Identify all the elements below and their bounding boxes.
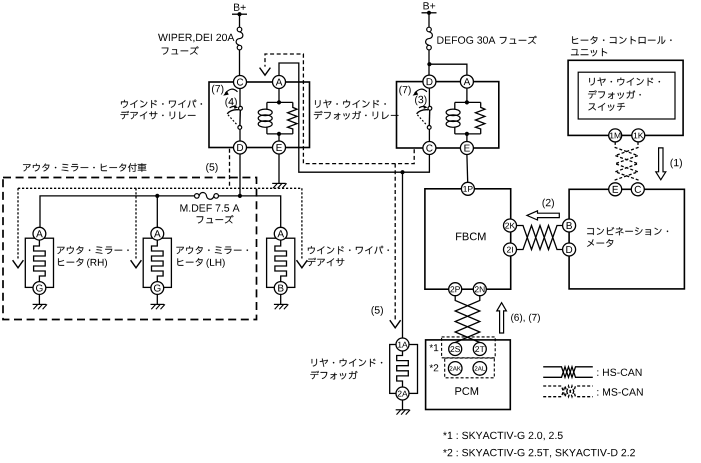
block arrow (1) pointing down bbox=[656, 148, 666, 180]
label MS-CAN bbox=[597, 390, 598, 396]
wire RH heater G to ground bbox=[38, 294, 40, 304]
node M.DEF junction bbox=[238, 194, 242, 198]
fuse M.DEF 7.5A bbox=[195, 193, 219, 200]
label outer mirror heater equipped cars bbox=[23, 163, 146, 172]
wire relay2 E to FBCM 1P bbox=[466, 155, 469, 183]
wire B+ feed to WIPER fuse bbox=[239, 14, 241, 27]
fuse WIPER,DEI 20A bbox=[236, 27, 243, 50]
meter terminal D bbox=[563, 243, 576, 256]
label rear window defogger bbox=[310, 359, 382, 380]
meter terminal E bbox=[609, 183, 622, 196]
relay2 terminal D bbox=[423, 75, 436, 88]
battery terminal B+ (right) bbox=[422, 2, 437, 15]
FBCM terminal 1P bbox=[461, 182, 474, 195]
PCM terminal 2T bbox=[473, 343, 486, 356]
ground rear defogger bbox=[396, 410, 410, 415]
ground under relay1 E bbox=[272, 183, 286, 188]
label (4) relay1 bbox=[225, 98, 238, 109]
label (5) left bbox=[206, 163, 209, 173]
HS-CAN twisted pair FBCM to meter bbox=[517, 226, 563, 250]
battery terminal B+ (left) bbox=[232, 4, 247, 17]
wire defogger 2A to ground bbox=[402, 400, 404, 410]
legend HS-CAN symbol bbox=[543, 367, 593, 378]
relay1 coil and resistor bbox=[258, 89, 297, 142]
label wind wiper deicer bbox=[307, 246, 389, 266]
label rear window defogger relay bbox=[314, 100, 399, 120]
ground LH heater bbox=[151, 304, 165, 309]
HCU terminal 1K bbox=[632, 129, 645, 142]
dashed group skyactiv-g terminals bbox=[442, 337, 496, 358]
dotted drop to wind wiper deicer bbox=[297, 188, 308, 267]
wire LH heater G to ground bbox=[156, 294, 158, 304]
PCM terminal 2AL bbox=[473, 362, 487, 376]
label (1) bbox=[671, 159, 674, 169]
ground wiper deicer bbox=[274, 304, 288, 309]
label M.DEF 7.5 A fuse bbox=[180, 204, 239, 223]
label outer mirror heater LH bbox=[176, 246, 248, 268]
relay1 terminal A bbox=[273, 76, 286, 89]
dashed link relay2 C down to defogger (step 5) bbox=[394, 164, 396, 321]
wire B+ feed to DEFOG fuse bbox=[428, 13, 430, 27]
rear window defogger element bbox=[390, 345, 418, 394]
meter terminal B bbox=[563, 219, 576, 232]
dashed link relay1 D down (step 5) bbox=[229, 149, 231, 189]
FBCM terminal 2K bbox=[504, 219, 517, 232]
node relay2 feed split bbox=[427, 62, 431, 66]
node LH heater junction bbox=[155, 194, 159, 198]
wire LH heater drop bbox=[156, 196, 158, 228]
label outer mirror heater RH bbox=[57, 246, 129, 268]
dotted distribution line to heater loads bbox=[18, 187, 302, 189]
label *1 marker bbox=[430, 344, 434, 348]
label heater control unit bbox=[571, 36, 672, 56]
block arrow (6)(7) pointing up bbox=[497, 303, 507, 333]
wire relay1 A loop to output bus and relay2 C bbox=[279, 63, 429, 172]
relay1 terminal C bbox=[234, 76, 247, 89]
wire branch to relay2 A bbox=[429, 64, 467, 75]
outer mirror heater LH element bbox=[143, 227, 171, 294]
FBCM terminal 2I bbox=[504, 243, 517, 256]
label FBCM bbox=[456, 233, 461, 241]
dashed group skyactiv-d terminals bbox=[445, 358, 495, 378]
outer mirror heater RH element bbox=[25, 227, 53, 294]
arrowhead at defogger 1A bbox=[390, 320, 401, 328]
wind wiper deicer element bbox=[267, 227, 295, 294]
fuse DEFOG 30A bbox=[426, 27, 433, 50]
label (7) relay2 bbox=[399, 86, 427, 96]
label WIPER,DEI 20A fuse bbox=[158, 34, 234, 55]
FBCM terminal 2N bbox=[473, 283, 486, 296]
arrowhead at relay1 A bbox=[260, 68, 271, 76]
wire wiper deicer B to ground bbox=[280, 294, 282, 304]
label *2 marker bbox=[430, 364, 434, 368]
MS-CAN twisted pair HCU to meter bbox=[615, 142, 638, 183]
label wind wiper deicer relay bbox=[121, 100, 203, 120]
wire main heater bus bbox=[40, 196, 195, 228]
wire fuse to junction and wiper deicer bbox=[219, 196, 281, 228]
wire fuse to relay2 bbox=[428, 50, 430, 75]
PCM terminal 2AK bbox=[448, 362, 462, 376]
rear window defogger switch inner box bbox=[578, 72, 675, 119]
wire junction down to defogger 1A bbox=[402, 172, 404, 338]
HCU terminal 1M bbox=[609, 129, 622, 142]
label DEFOG 30A fuse bbox=[437, 36, 536, 44]
legend MS-CAN symbol bbox=[543, 386, 593, 397]
relay2 terminal A bbox=[460, 75, 473, 88]
PCM box bbox=[426, 340, 511, 410]
dashed link relay2 to relay1 A (step 3-4) bbox=[265, 54, 414, 164]
label HS-CAN bbox=[597, 370, 598, 376]
FBCM box bbox=[425, 189, 511, 289]
wire relay1 E to ground bbox=[278, 154, 280, 183]
label (2) bbox=[543, 199, 546, 209]
block arrow (2) pointing left bbox=[527, 211, 559, 220]
relay1 terminal E bbox=[273, 141, 286, 154]
combination meter box bbox=[569, 189, 684, 289]
defogger terminal 2A bbox=[396, 387, 409, 400]
node junction defogger feed bbox=[400, 170, 404, 174]
defogger terminal 1A bbox=[396, 338, 409, 351]
relay1 terminal D bbox=[234, 141, 247, 154]
dashed box cars with outer mirror heater bbox=[3, 178, 257, 320]
dotted drop to RH mirror heater bbox=[13, 188, 24, 267]
label (7) relay1 bbox=[212, 85, 238, 96]
meter terminal C bbox=[631, 183, 644, 196]
footnote *2 SKYACTIV-G 2.5T SKYACTIV-D 2.2 bbox=[443, 449, 447, 453]
relay1 switch contact bbox=[227, 89, 242, 142]
dotted drop to LH mirror heater bbox=[131, 188, 142, 267]
twisted pair FBCM to PCM bbox=[455, 296, 480, 343]
relay box wind-wiper deicer relay bbox=[209, 82, 310, 148]
relay2 switch contact bbox=[417, 89, 432, 142]
label rear window defogger switch bbox=[588, 78, 660, 112]
PCM terminal 2S bbox=[449, 343, 462, 356]
relay2 coil and resistor bbox=[446, 89, 485, 142]
FBCM terminal 2P bbox=[449, 283, 462, 296]
label (6), (7) bbox=[511, 314, 514, 323]
ground RH heater bbox=[33, 304, 47, 309]
footnote *1 SKYACTIV-G 2.0 2.5 bbox=[443, 432, 447, 436]
heater control unit box bbox=[568, 60, 683, 135]
relay2 terminal C bbox=[423, 142, 436, 155]
label PCM bbox=[455, 387, 461, 395]
label (5) right bbox=[372, 306, 375, 316]
relay box rear window defogger relay bbox=[397, 82, 499, 148]
label (3) relay2 bbox=[415, 96, 427, 109]
wire fuse to relay terminal C bbox=[239, 50, 241, 76]
wire relay1 D down to M.DEF junction bbox=[239, 154, 241, 196]
relay2 terminal E bbox=[460, 142, 473, 155]
label combination meter bbox=[587, 227, 668, 247]
